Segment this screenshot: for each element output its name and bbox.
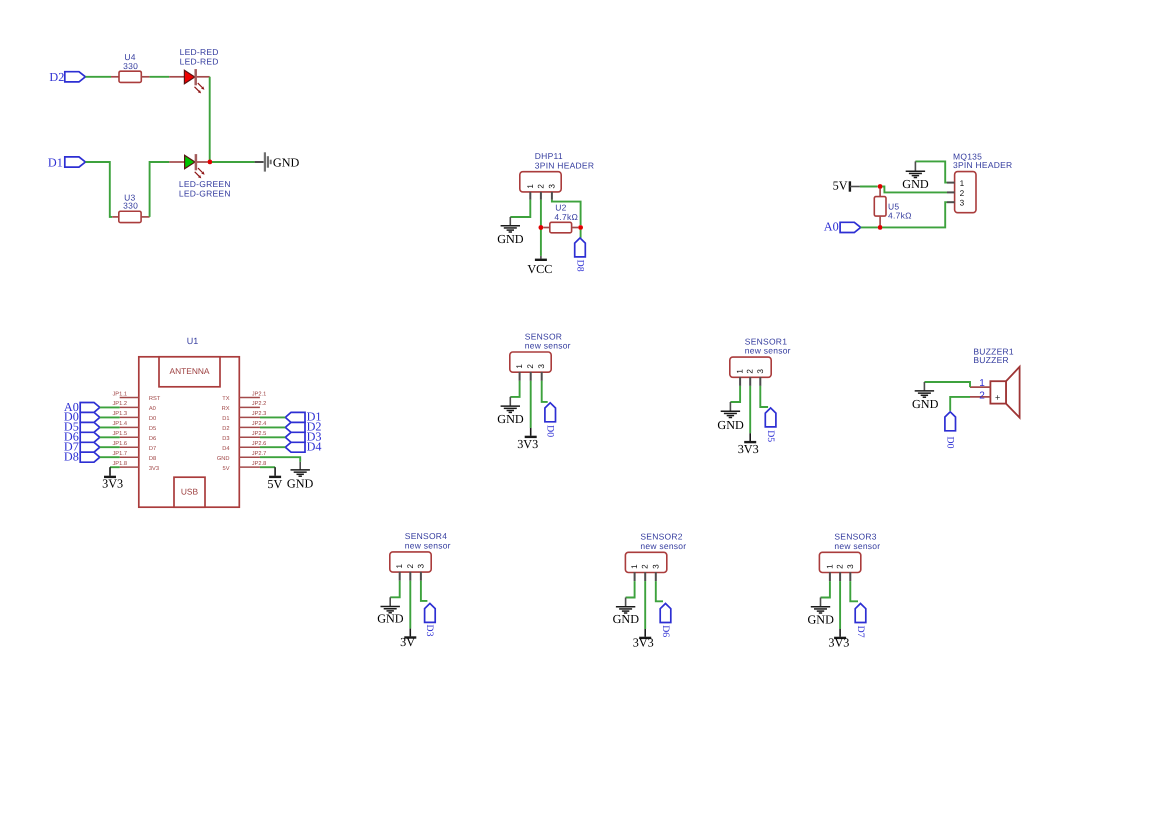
wire xyxy=(850,581,858,601)
svg-text:D7: D7 xyxy=(855,626,866,638)
pin 1 xyxy=(825,564,834,581)
supply 5V xyxy=(833,179,860,193)
header SENSOR4 (new sensor) xyxy=(390,531,451,572)
supply 3V3 xyxy=(738,433,759,456)
resistor U5 (4.7k) xyxy=(874,189,911,225)
pin 3 xyxy=(846,564,855,581)
svg-text:GND: GND xyxy=(287,477,314,491)
svg-text:JP2.6: JP2.6 xyxy=(252,441,267,447)
svg-text:GND: GND xyxy=(497,232,524,246)
U1 pin JP1.6 (D7) xyxy=(112,441,156,452)
svg-text:GND: GND xyxy=(273,155,300,169)
svg-text:TX: TX xyxy=(222,396,229,402)
pin 2 xyxy=(947,189,965,198)
junction xyxy=(878,225,883,230)
node D2 net label xyxy=(49,70,64,84)
wire xyxy=(100,446,120,448)
wire xyxy=(421,581,428,601)
svg-text:JP1.4: JP1.4 xyxy=(112,421,127,427)
wire xyxy=(950,397,970,411)
pin 3 xyxy=(947,199,965,208)
svg-text:2: 2 xyxy=(536,184,545,189)
svg-text:1: 1 xyxy=(736,369,745,374)
svg-text:new sensor: new sensor xyxy=(834,541,880,551)
svg-text:GND: GND xyxy=(497,412,524,426)
svg-text:A0: A0 xyxy=(149,406,156,412)
label D3 xyxy=(424,625,435,637)
wire xyxy=(100,406,120,408)
svg-text:GND: GND xyxy=(902,177,929,191)
svg-text:3V3: 3V3 xyxy=(102,477,123,491)
wire xyxy=(100,456,120,458)
header SENSOR (new sensor) xyxy=(510,331,571,372)
ground GND (rotated) xyxy=(255,152,300,171)
label D0 xyxy=(545,425,556,437)
svg-text:1: 1 xyxy=(526,184,535,189)
ground GND xyxy=(377,597,404,625)
ground GND xyxy=(497,217,524,246)
pin D6 xyxy=(660,604,671,623)
pin D5 xyxy=(64,420,100,434)
resistor U3 (330) xyxy=(112,192,149,222)
pin D6 xyxy=(64,430,100,444)
wire xyxy=(552,200,581,225)
wire xyxy=(839,581,841,629)
wire xyxy=(924,382,970,387)
svg-text:4.7kΩ: 4.7kΩ xyxy=(888,211,912,221)
wire xyxy=(85,76,111,78)
header SENSOR3 (new sensor) xyxy=(819,532,880,573)
pin D2 xyxy=(65,72,86,82)
wire xyxy=(260,446,285,448)
svg-text:JP1.2: JP1.2 xyxy=(112,401,127,407)
wire xyxy=(260,466,275,468)
svg-text:5V: 5V xyxy=(223,466,230,472)
junction xyxy=(578,225,583,230)
svg-text:3: 3 xyxy=(651,564,660,569)
svg-text:1: 1 xyxy=(825,564,834,569)
pin D3 xyxy=(425,603,436,622)
svg-text:D6: D6 xyxy=(149,436,156,442)
svg-text:3V3: 3V3 xyxy=(517,437,538,451)
svg-text:GND: GND xyxy=(613,612,640,626)
svg-text:D1: D1 xyxy=(48,155,63,169)
svg-text:D2: D2 xyxy=(222,426,229,432)
svg-text:JP2.1: JP2.1 xyxy=(252,391,267,397)
pin D8 xyxy=(64,450,100,464)
supply VCC xyxy=(527,256,552,276)
wire xyxy=(860,186,878,188)
svg-text:LED-RED: LED-RED xyxy=(180,56,219,66)
svg-text:D0: D0 xyxy=(149,416,156,422)
wire xyxy=(821,581,830,597)
svg-text:3V3: 3V3 xyxy=(633,636,654,650)
pin D0 xyxy=(64,410,100,424)
pin 2 xyxy=(641,564,650,581)
svg-text:JP1.3: JP1.3 xyxy=(112,411,127,417)
wire xyxy=(542,381,548,402)
svg-text:D0: D0 xyxy=(945,437,956,449)
wire xyxy=(150,162,170,217)
header SENSOR1 (new sensor) xyxy=(730,336,791,377)
svg-text:new sensor: new sensor xyxy=(525,341,571,351)
pin 2 xyxy=(536,184,545,200)
ground GND xyxy=(613,598,640,627)
wire xyxy=(150,76,170,78)
svg-text:3PIN HEADER: 3PIN HEADER xyxy=(953,160,1012,170)
svg-text:D3: D3 xyxy=(424,625,435,637)
label D7 xyxy=(855,626,866,638)
wire xyxy=(915,161,947,182)
svg-text:1: 1 xyxy=(960,179,965,188)
svg-text:RST: RST xyxy=(149,396,161,402)
svg-text:2: 2 xyxy=(979,390,985,401)
svg-text:RX: RX xyxy=(222,406,230,412)
pin A0 xyxy=(840,222,861,232)
wire xyxy=(540,200,542,256)
svg-text:JP1.6: JP1.6 xyxy=(112,441,127,447)
U1 pin JP1.7 (D8) xyxy=(112,451,156,462)
svg-text:3: 3 xyxy=(537,364,546,369)
wire xyxy=(100,436,120,438)
resistor U2 (4.7k) xyxy=(543,202,578,232)
buzzer BUZZER1 xyxy=(973,346,1019,417)
svg-text:D4: D4 xyxy=(307,440,322,454)
svg-text:1: 1 xyxy=(395,563,404,568)
header MQ135 (3PIN HEADER) xyxy=(953,151,1012,212)
wire xyxy=(260,416,285,418)
svg-text:new sensor: new sensor xyxy=(640,541,686,551)
svg-text:3: 3 xyxy=(547,184,556,189)
node D1 net label xyxy=(48,155,63,169)
pin 2 xyxy=(746,369,755,386)
header DHP11 (3PIN HEADER) xyxy=(520,151,594,192)
svg-text:JP1.7: JP1.7 xyxy=(112,451,127,457)
wire xyxy=(656,581,663,601)
U1 pin JP1.1 (RST) xyxy=(112,391,160,402)
svg-text:JP2.8: JP2.8 xyxy=(252,461,267,467)
pin D7 xyxy=(64,440,100,454)
pin D2 xyxy=(285,420,321,434)
U1 pin JP2.5 (D3) xyxy=(222,431,266,442)
pin 3 xyxy=(651,564,660,581)
supply 3V xyxy=(400,629,416,649)
junction xyxy=(539,225,544,230)
resistor U4 (330) xyxy=(111,52,150,82)
svg-text:2: 2 xyxy=(406,563,415,568)
wire xyxy=(260,436,285,438)
pin D4 xyxy=(285,440,321,454)
svg-text:D0: D0 xyxy=(545,425,556,437)
wire xyxy=(85,162,112,217)
U1 pin JP2.7 (GND) xyxy=(217,451,266,462)
svg-text:LED-RED: LED-RED xyxy=(180,47,219,57)
label D0 xyxy=(945,437,956,449)
svg-text:JP2.4: JP2.4 xyxy=(252,421,267,427)
U1 pin JP2.2 (RX) xyxy=(222,401,267,412)
svg-text:D5: D5 xyxy=(765,430,776,442)
label D8 xyxy=(574,260,585,272)
ground GND xyxy=(497,397,524,426)
pin 1 xyxy=(736,369,745,386)
U1 pin JP1.5 (D6) xyxy=(112,431,156,442)
svg-text:USB: USB xyxy=(181,486,199,496)
IC U1 xyxy=(139,336,240,507)
svg-text:4.7kΩ: 4.7kΩ xyxy=(554,212,578,222)
pin 3 xyxy=(547,184,556,200)
pin D3 xyxy=(285,430,321,444)
svg-text:1: 1 xyxy=(515,364,524,369)
svg-text:2: 2 xyxy=(960,189,965,198)
svg-text:D7: D7 xyxy=(149,446,156,452)
svg-text:+: + xyxy=(995,392,1000,402)
svg-text:3: 3 xyxy=(846,564,855,569)
svg-text:3: 3 xyxy=(756,369,765,374)
wire xyxy=(260,426,285,428)
svg-text:2: 2 xyxy=(526,364,535,369)
wire xyxy=(110,466,120,468)
label D6 xyxy=(660,625,671,637)
svg-text:3: 3 xyxy=(416,563,425,568)
junction xyxy=(208,160,213,165)
pin 1 xyxy=(395,563,404,580)
wire xyxy=(730,386,740,402)
svg-text:new sensor: new sensor xyxy=(405,540,451,550)
svg-text:3V3: 3V3 xyxy=(738,442,759,456)
pin A0 xyxy=(64,400,100,414)
svg-text:5V: 5V xyxy=(267,477,282,491)
svg-text:LED-GREEN: LED-GREEN xyxy=(179,179,231,189)
pin 1 xyxy=(515,364,524,381)
U1 pin JP1.2 (A0) xyxy=(112,401,155,412)
ground GND xyxy=(912,382,939,411)
junction xyxy=(878,184,883,189)
svg-text:GND: GND xyxy=(912,397,939,411)
svg-text:JP2.5: JP2.5 xyxy=(252,431,267,437)
wire xyxy=(510,381,519,397)
U1 pin JP2.8 (5V) xyxy=(223,461,267,472)
svg-text:GND: GND xyxy=(807,612,834,626)
pin 2 xyxy=(970,390,990,401)
svg-text:1: 1 xyxy=(630,564,639,569)
svg-text:D6: D6 xyxy=(660,625,671,637)
U1 pin JP1.8 (3V3) xyxy=(112,461,159,472)
svg-text:JP2.2: JP2.2 xyxy=(252,401,267,407)
wire xyxy=(882,187,947,193)
pin 2 xyxy=(526,364,535,381)
svg-text:2: 2 xyxy=(641,564,650,569)
wire xyxy=(644,581,646,629)
svg-text:new sensor: new sensor xyxy=(745,346,791,356)
header SENSOR2 (new sensor) xyxy=(625,532,686,573)
U1 pin JP2.3 (D1) xyxy=(222,411,266,422)
svg-text:VCC: VCC xyxy=(527,262,552,276)
ground GND xyxy=(717,402,744,432)
pin D5 xyxy=(765,408,776,427)
pin 3 xyxy=(537,364,546,381)
wire xyxy=(212,161,255,163)
svg-text:U1: U1 xyxy=(187,336,199,346)
ground GND xyxy=(902,161,929,191)
svg-text:JP1.8: JP1.8 xyxy=(112,461,127,467)
wire xyxy=(100,416,120,418)
svg-text:JP2.3: JP2.3 xyxy=(252,411,267,417)
svg-text:D8: D8 xyxy=(64,450,79,464)
wire xyxy=(580,230,582,238)
pin D0 xyxy=(945,412,956,431)
wire xyxy=(760,386,768,407)
pin D7 xyxy=(855,604,866,623)
svg-text:330: 330 xyxy=(123,200,138,210)
wire xyxy=(882,202,947,227)
pin 2 xyxy=(836,564,845,581)
wire xyxy=(510,200,530,217)
svg-text:D1: D1 xyxy=(222,416,229,422)
pin 3 xyxy=(756,369,765,386)
supply 3V3 xyxy=(633,629,654,650)
svg-text:2: 2 xyxy=(746,369,755,374)
svg-text:5V: 5V xyxy=(833,179,848,193)
pin 3 xyxy=(416,563,425,580)
pin D1 xyxy=(285,410,321,424)
ground GND xyxy=(807,598,834,627)
pin 2 xyxy=(406,563,415,580)
svg-text:JP1.1: JP1.1 xyxy=(112,391,127,397)
wire xyxy=(260,457,300,462)
pin 1 xyxy=(970,378,990,389)
svg-text:JP1.5: JP1.5 xyxy=(112,431,127,437)
supply 3V3 xyxy=(102,467,123,491)
U1 pin JP2.4 (D2) xyxy=(222,421,266,432)
svg-text:3V3: 3V3 xyxy=(149,466,159,472)
svg-text:D2: D2 xyxy=(49,70,64,84)
svg-text:D5: D5 xyxy=(149,426,156,432)
wire xyxy=(530,381,532,428)
wire xyxy=(861,226,878,228)
svg-text:3PIN HEADER: 3PIN HEADER xyxy=(535,161,594,171)
svg-text:JP2.7: JP2.7 xyxy=(252,451,267,457)
svg-text:3V3: 3V3 xyxy=(828,636,849,650)
wire xyxy=(209,77,211,161)
svg-text:D8: D8 xyxy=(574,260,585,272)
node A0 net label xyxy=(824,220,839,234)
pin 1 xyxy=(526,184,535,200)
pin D0 xyxy=(545,403,556,422)
pin 1 xyxy=(630,564,639,581)
supply 3V3 xyxy=(828,629,849,650)
U1 pin JP1.4 (D5) xyxy=(112,421,156,432)
supply 5V xyxy=(267,467,282,491)
LED LED-GREEN xyxy=(169,154,230,198)
supply 3V3 xyxy=(517,428,538,451)
svg-text:2: 2 xyxy=(836,564,845,569)
U1 pin JP2.1 (TX) xyxy=(222,391,266,402)
svg-text:1: 1 xyxy=(979,378,985,389)
wire xyxy=(390,581,400,598)
LED LED-RED xyxy=(169,47,218,94)
pin D8 xyxy=(575,238,586,257)
svg-text:D8: D8 xyxy=(149,456,156,462)
svg-text:ANTENNA: ANTENNA xyxy=(169,366,209,376)
ground GND xyxy=(287,462,314,491)
wire xyxy=(626,581,635,597)
svg-text:LED-GREEN: LED-GREEN xyxy=(179,189,231,199)
svg-text:330: 330 xyxy=(123,61,138,71)
svg-text:BUZZER: BUZZER xyxy=(973,355,1009,365)
U1 pin JP1.3 (D0) xyxy=(112,411,156,422)
U1 pin JP2.6 (D4) xyxy=(222,441,266,452)
wire xyxy=(100,426,120,428)
svg-text:GND: GND xyxy=(377,611,404,625)
label D5 xyxy=(765,430,776,442)
svg-text:A0: A0 xyxy=(824,220,839,234)
svg-text:3V: 3V xyxy=(400,635,415,649)
svg-text:D4: D4 xyxy=(222,446,229,452)
svg-text:GND: GND xyxy=(717,418,744,432)
pin D1 xyxy=(65,157,86,167)
pin 1 xyxy=(947,179,965,188)
wire xyxy=(409,581,411,629)
svg-text:GND: GND xyxy=(217,456,230,462)
wire xyxy=(749,386,751,433)
svg-text:D3: D3 xyxy=(222,436,229,442)
svg-text:3: 3 xyxy=(960,199,965,208)
